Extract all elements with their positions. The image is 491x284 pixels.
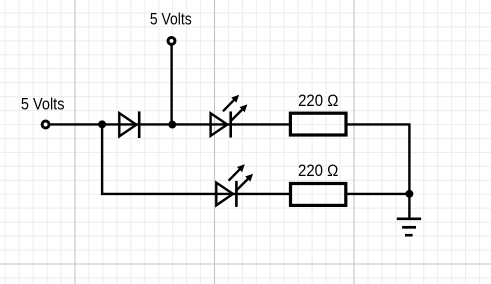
svg-text:220 Ω: 220 Ω	[298, 162, 338, 180]
svg-text:220 Ω: 220 Ω	[298, 92, 338, 110]
svg-text:5 Volts: 5 Volts	[150, 11, 192, 29]
svg-text:5 Volts: 5 Volts	[21, 96, 65, 114]
